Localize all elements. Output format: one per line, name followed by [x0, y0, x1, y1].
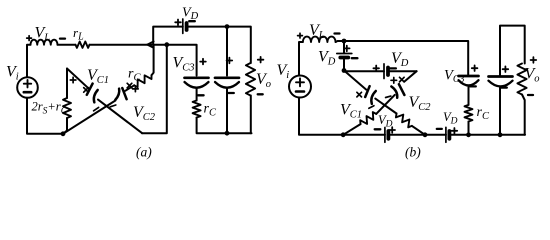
capacitor C3 (V_C3) circuit b [459, 75, 479, 78]
x mark V_C1 a [84, 88, 89, 93]
plus mark battery4 b [452, 128, 458, 134]
resistor 2rS+rC circuit a [63, 98, 71, 118]
svg-text:VC2: VC2 [409, 94, 432, 113]
svg-text:(b): (b) [405, 145, 421, 160]
node dot D1 circuit a [61, 131, 66, 136]
wire a: rL to node A [90, 44, 154, 46]
plus mark battery V_D a [175, 20, 181, 26]
minus mark V_C3 b [470, 85, 476, 87]
capacitor C1 (V_C1) circuit a straight plate [87, 84, 93, 95]
wire a: rC to output rail [197, 118, 252, 134]
minus mark battery4 b [437, 128, 442, 130]
x mark V_C2 a [127, 83, 132, 88]
inductor L (V_L) circuit b [303, 37, 336, 42]
svg-text:rC: rC [128, 67, 141, 84]
wire a: left column vertex down to resistor [66, 69, 68, 99]
wire b: battery4 to right rail corner [449, 134, 525, 136]
wire a: filter cap column upper [226, 27, 228, 76]
wire a: diagonal 1 lower C1 to bottom rail [98, 100, 142, 134]
plus mark V_C2 a [133, 86, 139, 92]
svg-text:VC1: VC1 [87, 67, 109, 86]
wire b: dot2 to battery4 [425, 134, 446, 136]
svg-text:Vi: Vi [277, 62, 290, 81]
plus mark battery1 b [344, 46, 350, 52]
resistor r_C diagonal A circuit b [396, 114, 412, 128]
plus mark V_C3 b [472, 65, 478, 71]
wire b: battery 2 to right elbow [388, 70, 417, 72]
capacitor C2 (V_C2) circuit a straight plate [122, 88, 126, 99]
plus mark V_C3 a [200, 59, 206, 65]
minus mark filter b [501, 86, 507, 88]
wire b: diagonal A upper N2 to C1 [344, 71, 366, 90]
minus mark filter a [228, 92, 234, 94]
wire a: resistor bottom to rail dot [63, 118, 67, 134]
wire b: output rectangle top [500, 26, 525, 76]
svg-text:2rS+rC: 2rS+rC [32, 100, 68, 117]
plus mark V_C2 b [391, 78, 397, 84]
minus mark battery2 b [390, 67, 396, 69]
svg-text:VC3: VC3 [444, 68, 465, 86]
minus mark V_C2 a entry side [110, 105, 116, 107]
svg-text:Vo: Vo [256, 71, 271, 90]
svg-text:VD: VD [443, 110, 458, 127]
svg-text:Vi: Vi [6, 64, 19, 83]
resistor r_C circuit b [465, 105, 473, 122]
svg-text:(a): (a) [136, 145, 152, 160]
wire a: slant rC to node A stub [152, 45, 154, 75]
capacitor C1 (V_C1) circuit b curved plate [371, 91, 375, 104]
wire b: diagonal B end to dot1 [343, 124, 360, 135]
svg-text:VD: VD [182, 6, 199, 23]
minus mark battery3 b [375, 128, 381, 130]
minus mark V_C3 a [198, 94, 204, 96]
svg-text:VC2: VC2 [133, 104, 156, 123]
minus mark battery1 b [352, 57, 358, 59]
svg-text:rC: rC [477, 105, 490, 122]
battery V_D circuit a [182, 19, 184, 33]
node dot N2 circuit b [342, 68, 347, 73]
battery V_D 2 circuit b horizontal [383, 64, 385, 79]
wire b: dot1 to battery3 [343, 134, 385, 136]
wire b: diagonal B mid C2 to zigzag [376, 95, 395, 114]
wire b: diagonal B upper elbow to C2 [404, 71, 416, 81]
node dot a output rail [225, 131, 230, 136]
wire a: C2 to slant rC [125, 85, 134, 91]
plus mark V_o b [531, 57, 537, 63]
resistor r_C output circuit a [193, 101, 201, 118]
wire a: source bottom to left rail [27, 98, 63, 134]
wire a: node A up to battery branch [153, 27, 183, 45]
wire a: coil to rL [58, 44, 76, 46]
svg-text:VD: VD [378, 113, 393, 130]
x mark V_C2 b [400, 77, 405, 82]
node dot rail rC circuit b [466, 132, 471, 137]
wire b: source to bottom rail [299, 98, 343, 135]
battery V_D 1 circuit b vertical [343, 41, 345, 53]
wire b: rC to rail [468, 122, 470, 135]
source V_i circuit a [17, 77, 38, 98]
capacitor C3 (V_C3) circuit a [185, 76, 209, 79]
minus mark V_L a [60, 37, 65, 39]
battery V_D 4 circuit b on rail [445, 127, 447, 142]
wire a: node B down to bottom left rail [142, 45, 167, 134]
node dot1 bottom circuit b [341, 132, 346, 137]
node dot filter bottom b [498, 132, 503, 137]
node A arrowhead [147, 42, 153, 48]
capacitor C1 (V_C1) circuit b straight plate [365, 86, 369, 97]
wire b: diagonal A end to dot2 [412, 126, 425, 135]
capacitor C2 (V_C2) circuit b straight plate [399, 84, 405, 95]
resistor r_C slanted circuit a [134, 75, 151, 87]
svg-text:VC3: VC3 [173, 55, 195, 74]
svg-text:Vo: Vo [525, 66, 540, 85]
svg-text:VL: VL [35, 25, 51, 44]
minus mark V_o b [528, 94, 533, 96]
svg-text:rC: rC [204, 102, 217, 119]
battery V_D 3 circuit b on rail [384, 128, 386, 143]
wire a: load to rail [250, 96, 252, 134]
minus mark V_C2 b exit side [386, 96, 391, 97]
capacitor C1 (V_C1) circuit a curved plate [94, 90, 98, 102]
wire b: diagonal A mid C1 to zigzag [375, 99, 396, 114]
wire a: node A to dot B to VC3 corner [154, 45, 197, 76]
svg-text:VL: VL [309, 22, 325, 41]
wire: circuit b left column [299, 42, 303, 76]
minus mark V_C1 a exit side [94, 107, 99, 110]
plus mark V_L b [298, 33, 303, 38]
svg-text:VC1: VC1 [340, 102, 362, 121]
node dot a filter top [225, 24, 230, 29]
wire b: N2 to battery 2 [344, 70, 384, 72]
filter capacitor circuit a [215, 76, 239, 79]
filter capacitor circuit b [489, 75, 513, 78]
node dot N1 circuit b [342, 39, 347, 44]
wire a: battery to top right corner, down to load [187, 27, 251, 63]
wire b: load to rail [522, 95, 525, 135]
svg-text:VD: VD [318, 49, 336, 68]
load resistor V_o circuit a [246, 63, 255, 96]
capacitor C2 (V_C2) circuit a curved plate [115, 89, 119, 100]
wire b: coil to VC3 corner [336, 41, 469, 76]
plus mark battery2 b [373, 66, 379, 72]
wire: circuit a left column [27, 45, 31, 77]
plus mark V_L a [27, 36, 32, 41]
resistor r_L circuit a [76, 42, 90, 48]
plus mark battery3 b [389, 127, 395, 133]
capacitor C2 (V_C2) circuit b curved plate [391, 87, 397, 98]
wire b: battery3 to dot2 [388, 134, 425, 136]
x mark V_C1 b [357, 92, 362, 97]
plus mark V_C1 a [70, 77, 76, 83]
wire a: diagonal 2 lower D1 to C2 [63, 101, 115, 134]
minus mark battery V_D a [189, 20, 195, 22]
node B dot circuit a [164, 42, 169, 47]
minus mark V_o a [258, 93, 263, 95]
wire a: diagonal 1 upper V1 to C1 [67, 69, 89, 89]
node dot2 bottom circuit b [423, 132, 428, 137]
source V_i circuit b [289, 76, 311, 98]
minus mark V_C1 b exit side [369, 106, 374, 109]
plus mark filter a [227, 58, 233, 64]
load resistor V_o circuit b [517, 64, 526, 95]
plus mark filter b [503, 66, 509, 72]
resistor r_C diagonal B circuit b [360, 112, 376, 124]
inductor L (V_L) circuit a [31, 40, 58, 45]
svg-text:rL: rL [73, 25, 84, 43]
svg-text:VD: VD [391, 50, 409, 69]
minus mark V_L b [335, 32, 340, 34]
plus mark V_o a [258, 57, 264, 63]
